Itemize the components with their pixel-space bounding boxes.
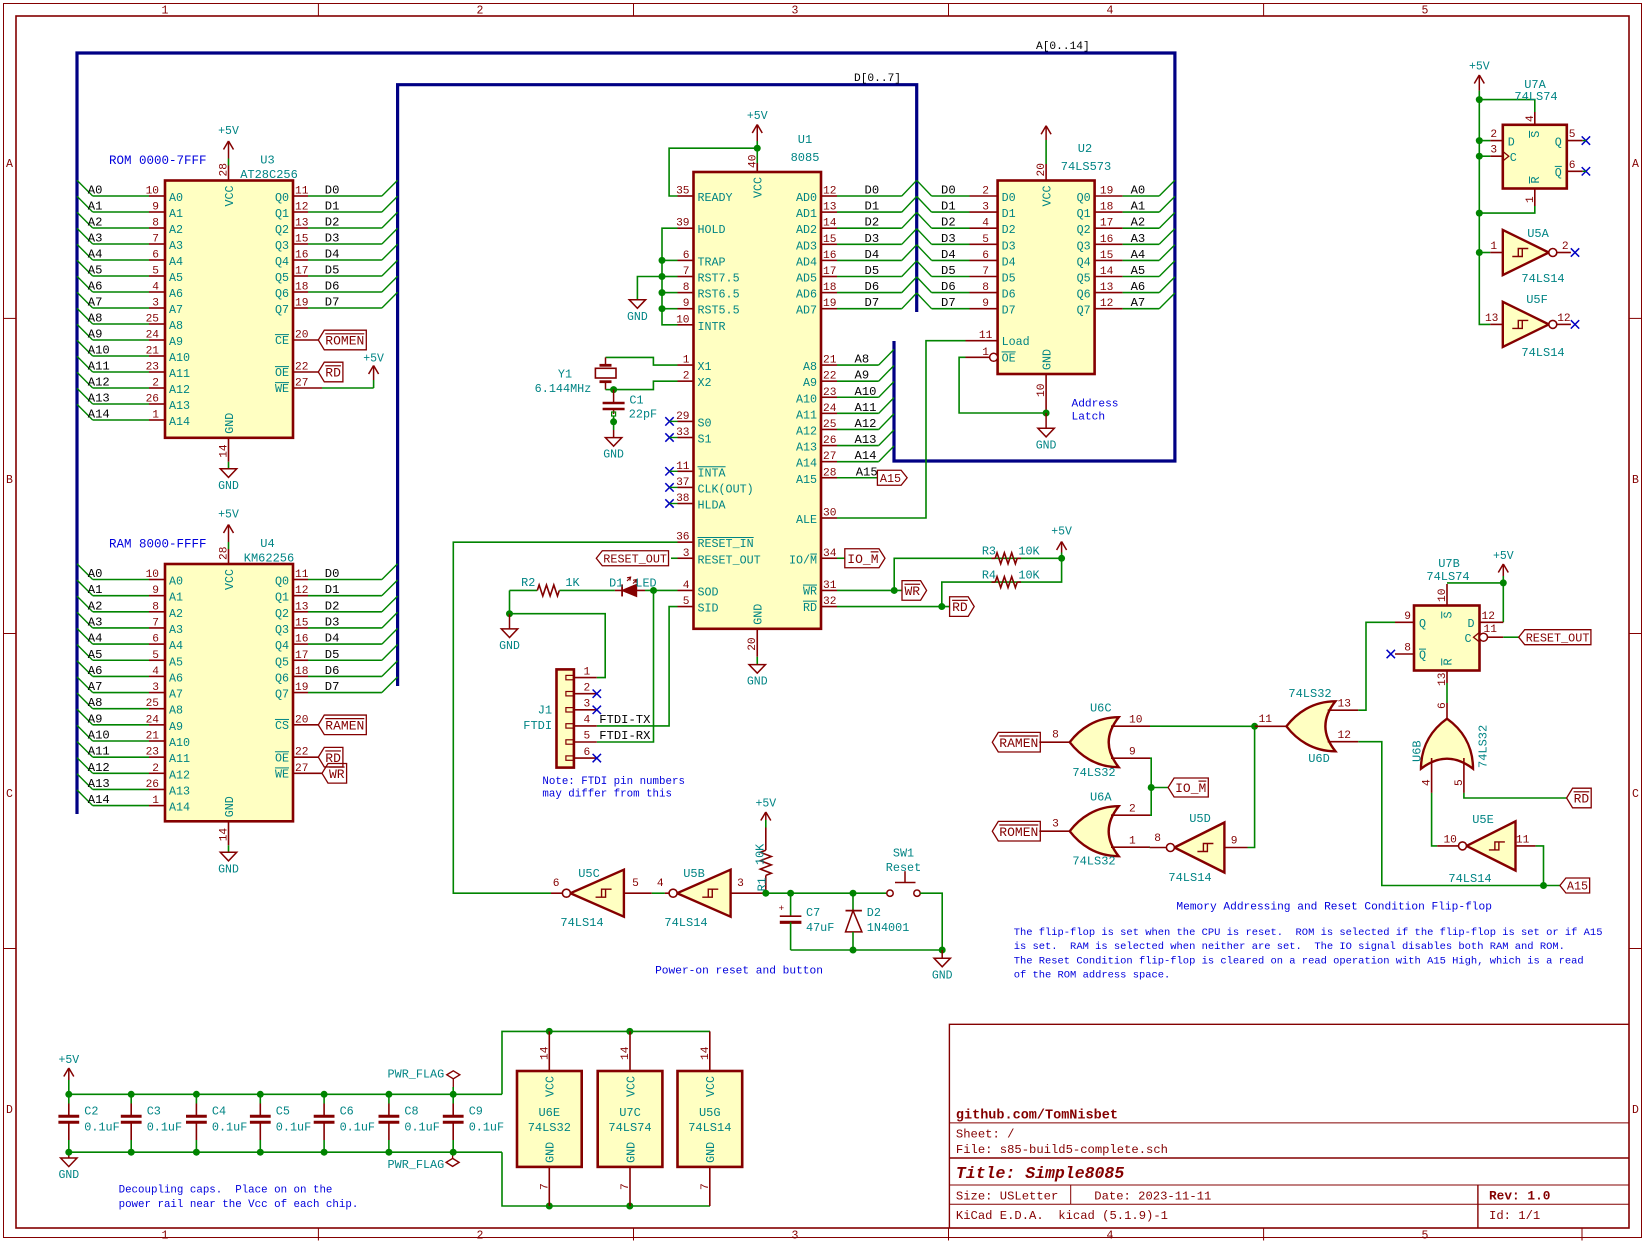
svg-text:A14: A14 — [855, 449, 877, 463]
wire U5B output to R1 junction — [763, 892, 765, 894]
U4 pin Q2 (13) with wire to D bus — [275, 596, 398, 621]
svg-text:RST6.5: RST6.5 — [698, 288, 740, 302]
svg-text:3: 3 — [982, 202, 989, 214]
J1 pin 6 — [566, 747, 601, 763]
global label IO_M at U1 — [845, 549, 885, 568]
svg-text:D2: D2 — [325, 599, 340, 613]
U1 pin ALE (30) with wire to U2 Load — [796, 341, 966, 527]
svg-text:Latch: Latch — [1072, 411, 1106, 423]
svg-text:RESET_OUT: RESET_OUT — [1526, 631, 1590, 645]
junction C5 bottom rail — [257, 1149, 264, 1156]
svg-text:4: 4 — [1422, 779, 1434, 786]
wire WR junction to R3 — [894, 558, 1061, 590]
svg-text:A2: A2 — [169, 607, 183, 621]
svg-text:8: 8 — [1154, 833, 1161, 845]
svg-text:AD7: AD7 — [796, 304, 817, 318]
U2 pin Q3 (16) with wire to A bus — [1077, 229, 1175, 254]
svg-text:12: 12 — [295, 585, 308, 597]
svg-text:+: + — [779, 903, 785, 914]
LED D1 — [609, 577, 657, 597]
U5G GND pin 7 — [700, 1142, 718, 1206]
svg-text:31: 31 — [823, 580, 837, 592]
U2 pin D4 (6) with wire from D bus — [917, 245, 1016, 270]
U3 pin Q4 (16) with wire to D bus — [275, 244, 398, 269]
U3 GND pin 14 with GND power symbol — [218, 413, 239, 493]
U6B pin 6 output — [1437, 702, 1449, 718]
U5D pin 8 output — [1150, 833, 1167, 848]
svg-text:D0: D0 — [865, 184, 880, 198]
U2 pin Q4 (15) with wire to A bus — [1077, 245, 1175, 270]
svg-text:A8: A8 — [855, 353, 870, 367]
wire U2 OE to GND junction — [959, 357, 1046, 413]
wire U6C pin 10 to U6D output 11 — [1150, 725, 1255, 727]
U1 pin HLDA (38) — [665, 493, 726, 513]
svg-text:2: 2 — [1129, 804, 1136, 816]
U6A OR gate 74LS32 — [1070, 791, 1119, 869]
svg-text:2: 2 — [477, 5, 484, 18]
svg-text:10K: 10K — [1018, 545, 1040, 559]
svg-text:U6B: U6B — [1411, 740, 1425, 762]
U3 pin Q3 (15) with wire to D bus — [275, 228, 398, 253]
wire U6C pin 9 to IO_M junction to U6A pin 2 — [1150, 758, 1151, 815]
wire D1 to SOD — [645, 589, 678, 591]
svg-text:VCC: VCC — [624, 1076, 638, 1097]
svg-text:4: 4 — [683, 580, 690, 592]
U1 pin A11 (24) with wire to A bus — [796, 398, 894, 423]
junction U7C GND — [626, 1203, 633, 1210]
svg-text:GND: GND — [544, 1142, 558, 1163]
svg-text:AD2: AD2 — [796, 223, 817, 237]
svg-text:A2: A2 — [169, 223, 183, 237]
svg-text:X1: X1 — [698, 360, 712, 374]
svg-text:D2: D2 — [941, 216, 956, 230]
svg-text:24: 24 — [146, 330, 160, 342]
svg-text:19: 19 — [823, 298, 836, 310]
+5V power symbol at decoupling rail — [58, 1054, 79, 1094]
svg-text:2: 2 — [477, 1230, 484, 1243]
wire U6B pin 4 down to U5E output — [1432, 793, 1438, 846]
svg-text:RD: RD — [1574, 792, 1590, 807]
junction at IO_M — [1148, 784, 1155, 791]
svg-text:28: 28 — [219, 163, 231, 176]
svg-text:9: 9 — [1404, 611, 1411, 623]
svg-text:A8: A8 — [88, 696, 103, 710]
svg-text:The Reset Condition flip-flop: The Reset Condition flip-flop is cleared… — [1014, 955, 1584, 967]
svg-text:Q7: Q7 — [1077, 304, 1091, 318]
svg-text:74LS32: 74LS32 — [528, 1121, 571, 1135]
svg-text:30: 30 — [823, 508, 837, 520]
svg-text:FTDI-RX: FTDI-RX — [599, 729, 651, 743]
svg-text:U1: U1 — [798, 133, 812, 147]
svg-text:D4: D4 — [1002, 255, 1016, 269]
U2 pin Q1 (18) with wire to A bus — [1077, 196, 1175, 221]
U1 pin RESET_OUT (3) — [678, 548, 761, 568]
svg-text:14: 14 — [219, 828, 231, 842]
junction C5 top rail — [257, 1091, 264, 1098]
svg-text:5: 5 — [1569, 129, 1576, 141]
capacitor C5 0.1uF — [250, 1094, 311, 1152]
svg-text:7: 7 — [620, 1183, 632, 1190]
svg-text:A15: A15 — [880, 472, 901, 486]
svg-text:U6A: U6A — [1090, 791, 1112, 805]
capacitor C9 0.1uF — [443, 1094, 504, 1152]
U6C OR gate 74LS32 — [1070, 702, 1119, 780]
svg-text:S0: S0 — [698, 416, 712, 430]
U4 pin A8 (25) with wire from A bus — [77, 693, 183, 718]
svg-text:1: 1 — [982, 347, 989, 359]
svg-text:5: 5 — [632, 878, 639, 890]
junction at WR — [891, 587, 898, 594]
svg-text:GND: GND — [624, 1142, 638, 1163]
U1 pin A15 (28) with global label A15 — [796, 465, 907, 487]
svg-text:A0: A0 — [88, 184, 103, 198]
svg-text:Power-on reset and button: Power-on reset and button — [655, 966, 823, 978]
svg-text:A7: A7 — [88, 296, 103, 310]
svg-text:14: 14 — [620, 1046, 632, 1060]
svg-text:A14: A14 — [88, 793, 110, 807]
svg-text:A3: A3 — [88, 232, 103, 246]
U4 pin A13 (26) with wire from A bus — [77, 774, 190, 799]
svg-text:32: 32 — [823, 596, 836, 608]
svg-text:C9: C9 — [469, 1104, 483, 1118]
svg-text:U6E: U6E — [538, 1106, 560, 1120]
svg-text:Decoupling caps. Place on on: Decoupling caps. Place on on the — [119, 1185, 333, 1197]
svg-text:A5: A5 — [88, 264, 103, 278]
svg-text:RD: RD — [325, 366, 341, 381]
U1 pin X1 (1) — [678, 355, 712, 375]
U3 pin Q7 (19) with wire to D bus — [275, 292, 398, 317]
junction at RD — [938, 603, 945, 610]
svg-text:D3: D3 — [1002, 239, 1016, 253]
svg-text:+5V: +5V — [363, 353, 384, 366]
svg-text:1: 1 — [1490, 241, 1497, 253]
svg-text:A12: A12 — [169, 383, 190, 397]
U6D pin 13 input — [1328, 699, 1359, 711]
svg-text:A10: A10 — [169, 351, 190, 365]
svg-text:github.com/TomNisbet: github.com/TomNisbet — [956, 1109, 1118, 1124]
svg-text:RD: RD — [952, 600, 968, 615]
U3 pin A11 (23) with wire from A bus — [77, 356, 190, 381]
svg-text:X2: X2 — [698, 376, 712, 390]
U4 pin A7 (3) with wire from A bus — [77, 677, 183, 702]
svg-text:10: 10 — [1443, 835, 1457, 847]
svg-text:Title: Simple8085: Title: Simple8085 — [956, 1164, 1124, 1183]
svg-text:SOD: SOD — [698, 585, 719, 599]
U5F inverter 74LS14 — [1503, 293, 1565, 360]
svg-text:Q1: Q1 — [275, 207, 289, 221]
junction dots on +5V rail — [1476, 96, 1483, 103]
svg-text:HLDA: HLDA — [698, 499, 727, 513]
svg-text:A1: A1 — [88, 200, 103, 214]
svg-text:D3: D3 — [325, 615, 340, 629]
address bus A[0..14] — [77, 53, 1175, 814]
wire U7B R to U6B output — [1446, 683, 1448, 703]
svg-text:A9: A9 — [88, 712, 103, 726]
svg-text:A1: A1 — [169, 207, 183, 221]
svg-text:11: 11 — [1516, 835, 1530, 847]
wire HOLD-TRAP-RST7.5-RST6.5-RST5.5-INTR tie — [662, 228, 678, 325]
svg-text:9: 9 — [982, 298, 989, 310]
U3 pin A14 (1) with wire from A bus — [77, 404, 190, 429]
svg-text:10K: 10K — [754, 843, 768, 865]
svg-text:IO/M: IO/M — [789, 553, 817, 567]
U3 pin A12 (2) with wire from A bus — [77, 372, 190, 397]
svg-text:2: 2 — [1562, 241, 1569, 253]
diode D2 1N4001 — [846, 893, 910, 950]
svg-text:GND: GND — [932, 969, 953, 982]
GND power symbol at decoupling rail — [58, 1152, 79, 1182]
U4 pin A6 (4) with wire from A bus — [77, 661, 183, 686]
svg-text:D: D — [1632, 1104, 1639, 1117]
svg-text:AD0: AD0 — [796, 191, 817, 205]
svg-text:2: 2 — [1490, 129, 1497, 141]
svg-text:A6: A6 — [1131, 280, 1146, 294]
svg-text:A15: A15 — [856, 465, 878, 479]
svg-text:6: 6 — [683, 250, 690, 262]
svg-text:74LS573: 74LS573 — [1061, 160, 1111, 174]
wire U5E input to A15 junction — [1536, 846, 1544, 886]
svg-text:CS: CS — [275, 719, 289, 733]
svg-text:C8: C8 — [404, 1104, 418, 1118]
U4 KM62256 body — [165, 564, 293, 821]
svg-text:74LS32: 74LS32 — [1072, 766, 1115, 780]
svg-text:10: 10 — [146, 186, 160, 198]
svg-text:74LS14: 74LS14 — [1168, 871, 1211, 885]
svg-text:74LS14: 74LS14 — [560, 916, 603, 930]
U1 pin HOLD (39) — [676, 218, 726, 238]
U7C VCC pin 14 — [620, 1031, 638, 1097]
svg-text:D6: D6 — [941, 280, 956, 294]
svg-text:27: 27 — [295, 763, 308, 775]
svg-text:IO_M: IO_M — [847, 552, 878, 567]
svg-text:17: 17 — [295, 650, 308, 662]
U4 pin Q3 (15) with wire to D bus — [275, 612, 398, 637]
U5G VCC pin 14 — [700, 1031, 718, 1097]
U4 pin A10 (21) with wire from A bus — [77, 725, 190, 750]
U3 pin Q0 (11) with wire to D bus — [275, 180, 398, 205]
svg-text:Q5: Q5 — [275, 271, 289, 285]
svg-text:15: 15 — [823, 234, 836, 246]
svg-text:12: 12 — [1482, 611, 1495, 623]
svg-text:9: 9 — [683, 298, 690, 310]
svg-text:Q2: Q2 — [1077, 223, 1091, 237]
U1 pin S1 (33) — [665, 427, 711, 447]
svg-text:C7: C7 — [806, 906, 820, 920]
svg-text:10: 10 — [1036, 383, 1048, 397]
svg-text:0.1uF: 0.1uF — [147, 1121, 182, 1135]
svg-text:PWR_FLAG: PWR_FLAG — [388, 1068, 445, 1082]
capacitor C6 0.1uF — [314, 1094, 375, 1152]
svg-text:C2: C2 — [84, 1104, 98, 1118]
svg-text:7: 7 — [982, 266, 989, 278]
GND below R2 — [499, 614, 520, 653]
svg-text:Q1: Q1 — [1077, 207, 1091, 221]
svg-text:GND: GND — [218, 480, 239, 493]
resistor R4 10K — [982, 568, 1041, 587]
U3 pin A4 (6) with wire from A bus — [77, 244, 183, 269]
svg-text:GND: GND — [223, 796, 237, 817]
svg-text:C3: C3 — [147, 1104, 161, 1118]
U1 pin READY (35) — [676, 186, 733, 206]
U5C pin 6 input — [551, 878, 562, 893]
svg-text:A11: A11 — [88, 745, 110, 759]
global label IO_M at gates — [1151, 778, 1208, 797]
svg-text:File: s85-build5-complete.sch: File: s85-build5-complete.sch — [956, 1143, 1168, 1157]
svg-text:Q3: Q3 — [275, 239, 289, 253]
svg-text:8: 8 — [1052, 730, 1059, 742]
svg-text:74LS14: 74LS14 — [1448, 872, 1491, 886]
svg-text:Q0: Q0 — [1077, 191, 1091, 205]
U4 WE global label WR — [322, 764, 347, 784]
switch SW1 Reset — [886, 847, 921, 897]
U5A inverter 74LS14 — [1503, 227, 1565, 286]
svg-text:S: S — [1441, 611, 1455, 618]
svg-text:Q1: Q1 — [275, 591, 289, 605]
U3 pin A3 (7) with wire from A bus — [77, 228, 183, 253]
svg-text:R: R — [1529, 176, 1543, 183]
svg-text:D3: D3 — [865, 232, 880, 246]
svg-text:0.1uF: 0.1uF — [276, 1121, 311, 1135]
U6D pin 11 output — [1255, 714, 1287, 726]
svg-text:Reset: Reset — [886, 861, 921, 875]
U7B pin D (12) — [1467, 611, 1503, 631]
svg-text:9: 9 — [1129, 747, 1136, 759]
wire X2 to crystal/C1 junction — [614, 381, 678, 389]
svg-text:A0: A0 — [1131, 184, 1146, 198]
U6B pin 4 input — [1422, 758, 1434, 793]
U2 pin D3 (5) with wire from D bus — [917, 229, 1016, 254]
svg-text:24: 24 — [146, 714, 160, 726]
U2 pin Q0 (19) with wire to A bus — [1077, 180, 1175, 205]
svg-text:3: 3 — [737, 878, 744, 890]
U4 pin Q7 (19) with wire to D bus — [275, 677, 398, 702]
svg-text:U7B: U7B — [1438, 557, 1460, 571]
resistor R3 10K — [982, 545, 1041, 564]
svg-text:+5V: +5V — [58, 1054, 79, 1067]
svg-text:A13: A13 — [88, 777, 110, 791]
U1 pin SID (5) — [678, 596, 719, 616]
svg-text:HOLD: HOLD — [698, 223, 726, 237]
svg-text:22: 22 — [823, 371, 836, 383]
svg-text:5: 5 — [152, 266, 159, 278]
U4 pin A12 (2) with wire from A bus — [77, 758, 190, 783]
svg-text:D2: D2 — [867, 906, 881, 920]
svg-text:A0: A0 — [169, 191, 183, 205]
note paragraph about flip-flop behavior — [1014, 927, 1603, 982]
svg-text:14: 14 — [1100, 266, 1114, 278]
svg-text:A14: A14 — [796, 457, 817, 471]
svg-text:Q4: Q4 — [1077, 255, 1091, 269]
svg-text:U5F: U5F — [1526, 293, 1548, 307]
U1 pin RST5.5 (9) — [678, 298, 740, 318]
svg-text:A13: A13 — [855, 433, 877, 447]
U5B inverter 74LS14 — [664, 867, 730, 930]
svg-text:0.1uF: 0.1uF — [404, 1121, 439, 1135]
svg-text:9: 9 — [1231, 836, 1238, 848]
svg-text:RAMEN: RAMEN — [999, 736, 1038, 751]
svg-text:A8: A8 — [169, 704, 183, 718]
svg-text:20: 20 — [747, 637, 759, 651]
svg-text:18: 18 — [295, 666, 308, 678]
svg-text:may differ from this: may differ from this — [542, 789, 672, 801]
U1 pin AD3 (15) with wire to D bus — [796, 229, 917, 254]
svg-text:GND: GND — [603, 449, 624, 462]
svg-text:GND: GND — [218, 863, 239, 876]
U5E pin 10 output — [1437, 835, 1458, 847]
svg-text:0.1uF: 0.1uF — [212, 1121, 247, 1135]
capacitor C3 0.1uF — [121, 1094, 182, 1152]
svg-text:15: 15 — [1100, 250, 1113, 262]
svg-text:74LS32: 74LS32 — [1477, 725, 1491, 768]
U6C pin 9 input — [1111, 747, 1150, 759]
GND below C1 — [603, 416, 624, 462]
U4 pin Q5 (17) with wire to D bus — [275, 645, 398, 670]
svg-text:C: C — [1464, 632, 1471, 646]
U5B pin 4 input — [657, 878, 669, 893]
svg-text:A10: A10 — [855, 385, 877, 399]
U1 pin A9 (22) with wire to A bus — [803, 365, 894, 390]
svg-text:AT28C256: AT28C256 — [240, 168, 298, 182]
U1 pin A10 (23) with wire to A bus — [796, 382, 894, 407]
svg-text:8: 8 — [982, 282, 989, 294]
svg-text:5: 5 — [1454, 779, 1466, 786]
U2 pin D0 (2) with wire from D bus — [917, 180, 1016, 205]
svg-text:11: 11 — [295, 569, 309, 581]
svg-text:VCC: VCC — [223, 569, 237, 590]
U2 pin Q7 (12) with wire to A bus — [1077, 293, 1175, 318]
svg-text:3: 3 — [1052, 819, 1059, 831]
svg-text:power rail near the Vcc of eac: power rail near the Vcc of each chip. — [119, 1199, 359, 1211]
svg-text:D1: D1 — [325, 200, 340, 214]
U2 VCC pin 20 with +5V power symbol — [1036, 126, 1054, 207]
svg-text:PWR_FLAG: PWR_FLAG — [388, 1158, 445, 1172]
U7B pin S (10) top — [1437, 584, 1455, 619]
U4 pin A0 (10) with wire from A bus — [77, 564, 183, 589]
wire U7A R pin 1 to rail — [1479, 206, 1535, 213]
svg-text:ROMEN: ROMEN — [325, 334, 364, 349]
U3 pin A6 (4) with wire from A bus — [77, 276, 183, 301]
svg-text:B: B — [1632, 474, 1639, 487]
decoupling top rail — [69, 1093, 502, 1095]
svg-text:A12: A12 — [169, 768, 190, 782]
U6A pin 1 input — [1111, 836, 1150, 848]
svg-text:C: C — [6, 788, 13, 801]
svg-text:13: 13 — [295, 218, 308, 230]
svg-text:GND: GND — [627, 311, 648, 324]
svg-text:1: 1 — [162, 5, 169, 18]
U1 pin AD1 (13) with wire to D bus — [796, 196, 917, 221]
svg-text:Q6: Q6 — [1077, 288, 1091, 302]
svg-text:26: 26 — [146, 779, 159, 791]
svg-text:29: 29 — [676, 411, 689, 423]
svg-text:R: R — [1441, 658, 1455, 665]
U4 pin WE (27) — [275, 763, 322, 782]
svg-text:A12: A12 — [855, 417, 877, 431]
svg-text:The flip-flop is set when the: The flip-flop is set when the CPU is res… — [1014, 927, 1603, 939]
svg-text:A1: A1 — [169, 591, 183, 605]
U1 pin S0 (29) — [665, 411, 711, 431]
svg-text:25: 25 — [146, 314, 159, 326]
svg-text:7: 7 — [152, 617, 159, 629]
svg-text:RESET_IN: RESET_IN — [698, 537, 754, 551]
svg-text:D5: D5 — [1002, 272, 1016, 286]
svg-text:28: 28 — [823, 467, 836, 479]
svg-text:U5C: U5C — [578, 867, 600, 881]
svg-text:8: 8 — [152, 218, 159, 230]
svg-text:KiCad E.D.A. kicad (5.1.9)-1: KiCad E.D.A. kicad (5.1.9)-1 — [956, 1209, 1168, 1223]
svg-text:WR: WR — [803, 585, 817, 599]
svg-text:READY: READY — [698, 191, 733, 205]
